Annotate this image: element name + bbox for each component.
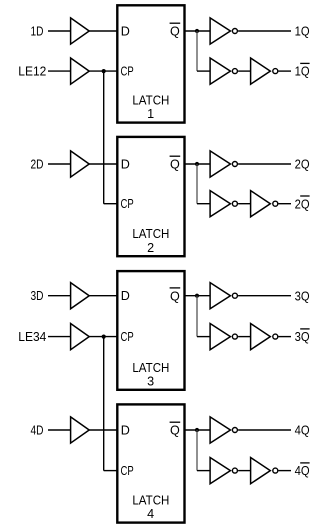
buffer 3D — [71, 283, 90, 309]
wire LE12 drop to latch 2 CP — [103, 71, 105, 204]
svg-text:2: 2 — [147, 241, 154, 255]
junction LE34 node — [102, 335, 106, 339]
svg-text:D: D — [121, 424, 130, 438]
svg-text:4D: 4D — [31, 424, 44, 438]
inverter 2Q — [210, 151, 230, 177]
wire between 1Qbar inverters — [238, 70, 251, 72]
svg-text:2Q: 2Q — [295, 197, 310, 211]
wire 2D to buffer — [48, 163, 71, 165]
svg-text:3Q: 3Q — [295, 330, 310, 344]
junction Qbar node 2 — [195, 162, 199, 166]
wire LE34 drop to latch 4 CP — [103, 337, 105, 471]
wire buffer to CP pin of latch 1 — [89, 70, 117, 72]
wire buffer to D pin of latch 1 — [89, 30, 117, 32]
inverter 4Qbar second — [251, 458, 271, 484]
wire Qbar node drop to lower inverter row — [196, 164, 198, 204]
junction LE12 node — [102, 69, 106, 73]
wire Qbar of latch 2 to inverters — [185, 163, 211, 165]
svg-text:4Q: 4Q — [295, 464, 310, 478]
wire 4D to buffer — [48, 429, 71, 431]
svg-text:D: D — [121, 158, 130, 172]
wire inverter to 3Q output — [238, 295, 291, 297]
buffer 4D — [71, 417, 90, 443]
svg-text:Q: Q — [170, 25, 180, 39]
junction Qbar node 1 — [195, 29, 199, 33]
wire buffer to D pin of latch 4 — [89, 429, 117, 431]
svg-text:D: D — [121, 289, 130, 303]
svg-text:LATCH: LATCH — [132, 227, 169, 241]
wire inverter to 2Q output — [238, 163, 291, 165]
svg-text:2D: 2D — [31, 158, 44, 172]
svg-text:LE12: LE12 — [18, 65, 46, 79]
wire inverter to 4Q output — [238, 429, 291, 431]
svg-text:LATCH: LATCH — [132, 361, 169, 375]
buffer 1D — [71, 18, 90, 44]
svg-text:4Q: 4Q — [295, 424, 310, 438]
wire between 4Qbar inverters — [238, 470, 251, 472]
wire Qbar of latch 3 to inverters — [185, 295, 211, 297]
svg-text:LE34: LE34 — [18, 330, 46, 344]
svg-text:Q: Q — [170, 424, 180, 438]
svg-text:LATCH: LATCH — [132, 94, 169, 108]
latch LATCH 3 — [117, 271, 184, 390]
svg-text:1D: 1D — [31, 25, 44, 39]
latch LATCH 4 — [117, 404, 184, 522]
buffer 2D — [71, 151, 90, 177]
svg-text:1Q: 1Q — [295, 65, 310, 79]
latch LATCH 1 — [117, 5, 184, 122]
inverter 1Q — [210, 18, 230, 44]
inverter 3Qbar second — [251, 324, 271, 350]
junction Qbar node 3 — [195, 294, 199, 298]
wire 3D to buffer — [48, 295, 71, 297]
buffer LE12 — [71, 58, 90, 84]
latch LATCH 2 — [117, 137, 184, 256]
inverter 3Q — [210, 283, 230, 309]
svg-text:2Q: 2Q — [295, 158, 310, 172]
inverter 1Qbar first — [210, 58, 230, 84]
svg-text:3D: 3D — [31, 289, 44, 303]
svg-text:CP: CP — [121, 464, 134, 478]
wire inverter to 1Qbar output — [279, 70, 292, 72]
svg-text:Q: Q — [170, 289, 180, 303]
wire 1D to buffer — [48, 30, 71, 32]
wire buffer to D pin of latch 3 — [89, 295, 117, 297]
wire Qbar of latch 1 to inverters — [185, 30, 211, 32]
svg-text:Q: Q — [170, 158, 180, 172]
inverter 2Qbar first — [210, 191, 230, 217]
wire between 3Qbar inverters — [238, 336, 251, 338]
wire inverter to 1Q output — [238, 30, 291, 32]
svg-text:1: 1 — [147, 107, 154, 121]
svg-text:3Q: 3Q — [295, 289, 310, 303]
svg-text:3: 3 — [147, 374, 154, 388]
wire Qbar node drop to lower inverter row — [196, 296, 198, 337]
svg-text:LATCH: LATCH — [132, 494, 169, 508]
buffer LE34 — [71, 324, 90, 350]
inverter 4Qbar first — [210, 458, 230, 484]
svg-text:CP: CP — [121, 330, 134, 344]
wire Qbar node drop to lower inverter row — [196, 31, 198, 71]
wire buffer to D pin of latch 2 — [89, 163, 117, 165]
wire LE12 to buffer — [48, 70, 71, 72]
svg-text:D: D — [121, 25, 130, 39]
svg-text:1Q: 1Q — [295, 25, 310, 39]
wire inverter to 3Qbar output — [279, 336, 292, 338]
inverter 4Q — [210, 417, 230, 443]
inverter 2Qbar second — [251, 191, 271, 217]
wire buffer to CP pin of latch 3 — [89, 336, 117, 338]
svg-text:4: 4 — [147, 507, 154, 521]
wire Qbar of latch 4 to inverters — [185, 429, 211, 431]
inverter 1Qbar second — [251, 58, 271, 84]
wire Qbar node drop to lower inverter row — [196, 430, 198, 471]
svg-text:CP: CP — [121, 197, 134, 211]
wire inverter to 2Qbar output — [279, 203, 292, 205]
wire LE34 to buffer — [48, 336, 71, 338]
svg-text:CP: CP — [121, 65, 134, 79]
wire between 2Qbar inverters — [238, 203, 251, 205]
wire inverter to 4Qbar output — [279, 470, 292, 472]
junction Qbar node 4 — [195, 428, 199, 432]
inverter 3Qbar first — [210, 324, 230, 350]
